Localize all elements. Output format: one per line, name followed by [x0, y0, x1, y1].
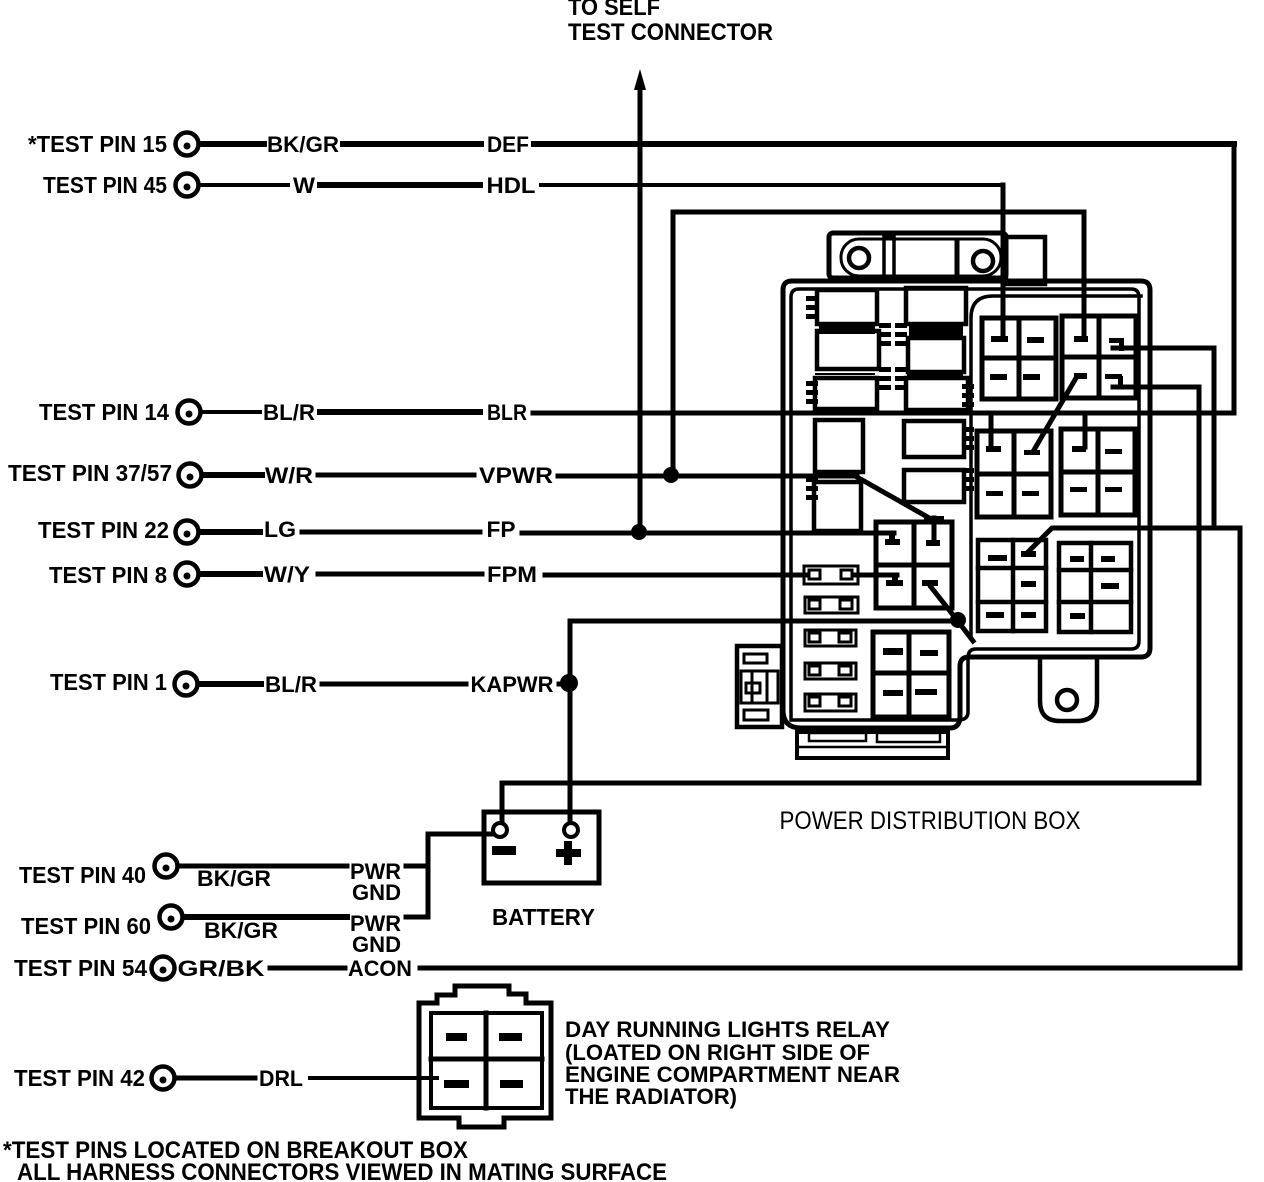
G3 pin from BLR [986, 413, 1001, 452]
relay grid G1 [982, 318, 1056, 399]
wire KAPWR row [200, 681, 261, 687]
G1 dashes [990, 337, 1044, 380]
node TO SELF TEST CONNECTOR label [568, 0, 773, 46]
wire diagonal G2 to G3 [1034, 378, 1076, 450]
svg-text:VPWR: VPWR [479, 463, 553, 488]
svg-text:TEST PIN 37/57: TEST PIN 37/57 [8, 460, 172, 486]
G2 pin from VPWR [1074, 336, 1088, 342]
G2 hook bottom-right [1105, 374, 1123, 388]
wire VPWR vertical up and over [673, 212, 1084, 475]
relay grid G2 [1062, 316, 1136, 398]
fuse tab comb middle column left upper [895, 323, 907, 346]
test pin 22 circle [176, 521, 199, 544]
fuse M5 [904, 470, 964, 502]
fuse tab comb middle column left lower [895, 367, 907, 390]
svg-text:LG: LG [264, 517, 296, 542]
wire VPWR row [204, 472, 262, 478]
svg-text:THE RADIATOR): THE RADIATOR) [565, 1084, 737, 1109]
junction dot KAPWR [560, 674, 578, 692]
svg-text:TEST PIN 42: TEST PIN 42 [14, 1065, 145, 1091]
wire ACON vertical right [1238, 528, 1243, 968]
wire HDL row [201, 183, 288, 187]
mounting tab hole [1057, 690, 1077, 710]
label PWR GND 2 [350, 911, 401, 957]
wire right side to GB1 pin [1054, 526, 1240, 531]
mounting bracket top [829, 233, 1006, 278]
test pin 14 circle [178, 401, 201, 424]
fuse M1 [906, 288, 966, 324]
wire to battery minus [428, 832, 494, 837]
svg-text:TEST PIN 8: TEST PIN 8 [49, 562, 167, 588]
svg-text:TEST PIN 45: TEST PIN 45 [43, 172, 167, 198]
fuse C [815, 378, 877, 409]
small block on box top [1006, 237, 1045, 284]
svg-text:TEST CONNECTOR: TEST CONNECTOR [568, 19, 773, 46]
power distribution box outline inner [791, 289, 1139, 720]
wire G2 bottom-right to battery minus [502, 387, 1199, 783]
fuse A [817, 290, 877, 324]
wire ACON row [270, 966, 345, 971]
relay grid G5 [876, 522, 952, 608]
svg-text:TO SELF: TO SELF [568, 0, 660, 21]
svg-text:W/Y: W/Y [264, 562, 310, 587]
minifuse 4 [805, 663, 856, 679]
minifuse FPM [804, 566, 858, 584]
label DAY RUNNING LIGHTS RELAY [565, 1017, 900, 1109]
svg-text:BLR: BLR [487, 400, 527, 425]
fuse tab comb left of E [806, 477, 818, 500]
test pin 1 circle [175, 673, 198, 696]
fuse separator lines left [816, 373, 874, 375]
G2 hook bottom-left [1074, 373, 1087, 379]
test pin 37/57 circle [179, 464, 202, 487]
svg-text:GND: GND [352, 880, 401, 905]
svg-text:BL/R: BL/R [265, 672, 317, 697]
svg-text:DAY RUNNING LIGHTS RELAY: DAY RUNNING LIGHTS RELAY [565, 1017, 890, 1042]
wire battery minus vertical [500, 783, 505, 824]
wire KAPWR vertical to battery plus [568, 621, 573, 824]
relay grid G4 [1061, 429, 1135, 515]
minifuse 3 [805, 630, 856, 646]
fuse E [814, 482, 861, 531]
svg-text:TEST PIN 14: TEST PIN 14 [39, 399, 169, 425]
GB2 dashes [1070, 556, 1119, 619]
svg-text:FPM: FPM [487, 562, 537, 587]
wire DEF vertical right [1232, 144, 1237, 413]
GB1 pin top-right [1021, 551, 1036, 557]
fuse tab comb between columns lower [879, 367, 891, 390]
svg-text:TEST PIN 22: TEST PIN 22 [38, 517, 169, 543]
relay grid G5b [873, 632, 949, 717]
fuse tab comb left of A [806, 296, 818, 319]
G3 pin diagonal end [1024, 450, 1040, 455]
fuse tab comb right of M3 [962, 384, 974, 407]
wire diagonal VPWR to G5 [857, 477, 931, 519]
svg-text:ACON: ACON [348, 956, 412, 981]
battery B1 [484, 812, 599, 883]
wire HDL vertical into box [1001, 185, 1006, 338]
battery plus sign [556, 841, 581, 865]
mounting tab with hole [1040, 657, 1097, 721]
wire DEF row [201, 141, 264, 147]
wire diagonal to GB1 top-right pin [1028, 529, 1051, 552]
wire KAPWR horizontal into box [570, 619, 957, 624]
svg-text:POWER DISTRIBUTION BOX: POWER DISTRIBUTION BOX [780, 807, 1081, 835]
wire BLR row [203, 410, 260, 414]
fuse tab comb between columns upper [879, 323, 891, 346]
fuse separator lines middle [908, 374, 962, 376]
svg-text:*TEST PIN 15: *TEST PIN 15 [28, 131, 167, 157]
fuse D [815, 420, 863, 472]
svg-text:TEST PIN 54: TEST PIN 54 [14, 955, 147, 981]
bottom tray [797, 732, 948, 758]
G5 hook diag KAPWR [922, 580, 938, 586]
svg-text:FP: FP [487, 517, 516, 542]
relay grid GB2 [1059, 543, 1131, 632]
fuse tab comb right of M5 [962, 468, 974, 491]
relay grid G3 [977, 431, 1051, 517]
G4 dashes [1070, 449, 1122, 492]
fuse M4 [904, 421, 964, 457]
svg-text:DEF: DEF [487, 132, 529, 157]
GB1 dashes [986, 555, 1036, 618]
G4 pin from BLR [1072, 413, 1086, 452]
fuse M2 [908, 338, 964, 372]
fuse holder band left [819, 323, 875, 334]
test pin 60 circle [160, 906, 183, 929]
left connector on box [737, 646, 782, 727]
wire DRL row [177, 1076, 255, 1081]
svg-text:BK/GR: BK/GR [267, 132, 339, 157]
G1 pin from HDL [991, 336, 1008, 342]
relay zone border [971, 296, 1141, 638]
svg-text:DRL: DRL [259, 1066, 303, 1091]
test pin 8 circle [176, 563, 199, 586]
wire diagonal G5 to KAPWR dot [931, 587, 973, 641]
svg-text:BL/R: BL/R [263, 400, 315, 425]
G5 hook FP [885, 533, 900, 545]
DRL dashes [444, 1033, 523, 1088]
G2 hook top-right [1109, 338, 1124, 351]
test pin 15 circle [176, 133, 199, 156]
test pin 40 circle [155, 855, 178, 878]
junction dot VPWR [663, 467, 679, 483]
junction dot KAPWR diagonal [950, 612, 966, 628]
G5 hook FPM [886, 575, 903, 586]
G5 pin VPWR diag [924, 516, 944, 546]
fuse tab comb right of M4 [962, 427, 974, 450]
test pin 54 circle [152, 957, 175, 980]
svg-text:KAPWR: KAPWR [471, 672, 554, 697]
svg-text:BK/GR: BK/GR [197, 866, 271, 891]
wire FPM row [201, 571, 260, 577]
battery minus sign [492, 846, 516, 855]
wire G2 top-right to right side down [1113, 348, 1214, 528]
minifuse 5 [805, 694, 856, 711]
svg-text:GND: GND [352, 932, 401, 957]
relay grid GB1 [978, 540, 1046, 631]
battery terminal negative [493, 823, 507, 837]
minifuse 2 [805, 597, 858, 613]
fuse M3 [906, 378, 968, 410]
svg-text:HDL: HDL [487, 173, 536, 198]
svg-text:BK/GR: BK/GR [204, 918, 278, 943]
svg-text:BATTERY: BATTERY [492, 904, 595, 930]
test pin 42 circle [152, 1067, 175, 1090]
svg-text:TEST PIN 40: TEST PIN 40 [19, 862, 146, 888]
G5b dashes [883, 648, 938, 696]
junction dot FP [631, 524, 647, 540]
fuse tab comb left of C [806, 381, 818, 404]
DRL relay connector [419, 986, 551, 1127]
G3 dashes [986, 491, 1039, 496]
wire PWR GND row 1 [180, 864, 347, 869]
fuse holder band middle [909, 325, 963, 338]
wire FP row [201, 529, 260, 535]
fuse B [817, 331, 879, 369]
svg-text:W: W [293, 173, 315, 198]
wire PWR GND row 2 [185, 914, 347, 920]
svg-text:TEST PIN 1: TEST PIN 1 [50, 669, 167, 695]
wire self-test vertical with arrow [638, 88, 643, 532]
battery terminal positive [564, 823, 578, 837]
svg-text:TEST PIN 60: TEST PIN 60 [21, 913, 151, 939]
svg-text:W/R: W/R [265, 463, 313, 488]
test pin 45 circle [176, 174, 199, 197]
label PWR GND 1 [350, 859, 401, 905]
power distribution box outline outer [783, 281, 1150, 728]
svg-text:GR/BK: GR/BK [178, 956, 265, 981]
svg-text:ALL HARNESS CONNECTORS VIEWED: ALL HARNESS CONNECTORS VIEWED IN MATING … [17, 1159, 667, 1182]
